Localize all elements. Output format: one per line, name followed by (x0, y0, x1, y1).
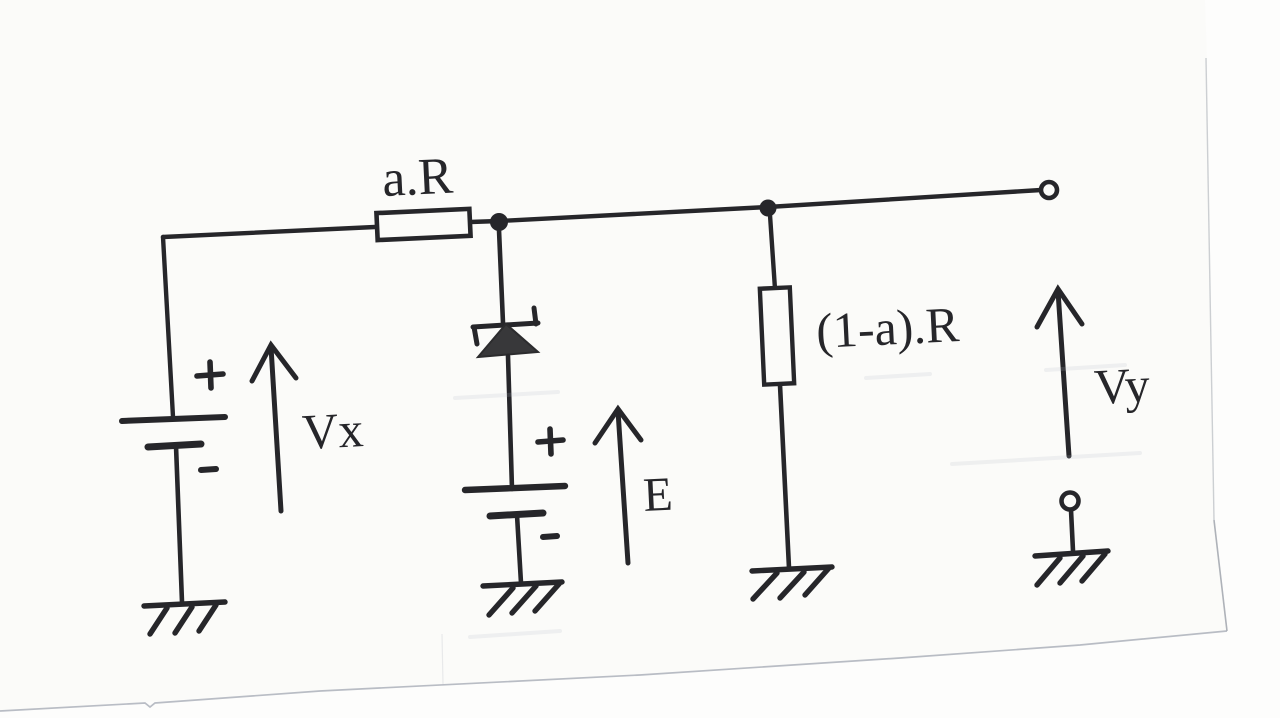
svg-text:a.R: a.R (381, 148, 455, 208)
svg-text:Vx: Vx (301, 401, 365, 460)
svg-text:(1-a).R: (1-a).R (815, 296, 961, 359)
svg-text:E: E (642, 468, 674, 522)
